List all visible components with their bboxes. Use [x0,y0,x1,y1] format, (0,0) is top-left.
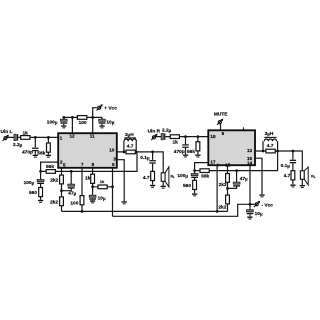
node dots top rail [62,116,65,119]
wire input L [7,136,58,138]
capacitor 100u L [40,171,42,187]
top supply rail wire [64,117,102,133]
resistor 100 L (pin 7) [81,168,83,212]
svg-text:Uin R: Uin R [148,129,161,135]
ground 470p L [33,155,38,158]
junction output L left [123,151,126,154]
svg-text:0.1μ: 0.1μ [281,163,291,169]
capacitor 10u -Vcc [249,204,251,216]
svg-text:8: 8 [92,162,95,167]
pin stub top of U2 [242,127,244,130]
output wire R (pin 13) [255,151,302,171]
+Vcc arrow [93,108,97,118]
resistor 56k R input [197,137,199,155]
capacitor 100u R [194,171,196,181]
junction bus pin 7 net [81,210,84,213]
svg-text:100μ: 100μ [24,180,35,186]
svg-text:560: 560 [183,183,191,189]
svg-text:+ Vcc: + Vcc [104,105,117,111]
wire pin 3 to ground [117,160,124,202]
svg-text:100: 100 [79,120,87,126]
wire input R [156,136,209,138]
svg-text:4.7: 4.7 [143,175,150,181]
resistor 1k L (pin 8) [92,168,94,175]
svg-text:56k: 56k [37,150,45,156]
svg-text:10μ: 10μ [98,195,106,201]
junction output R right [276,150,279,153]
capacitor 0.1u R [292,151,294,171]
svg-text:2k2: 2k2 [218,205,226,211]
lower -Vcc bus [113,204,251,216]
resistor 1k L input [21,136,30,140]
feedback row wire R [195,151,278,171]
ground pin 16 [259,194,264,197]
resistor 4.7 output L [126,150,135,154]
svg-text:2.2μ: 2.2μ [13,142,23,148]
node dot input L / 56k [47,136,50,139]
resistor 4.7 output R [266,149,275,153]
svg-text:5: 5 [63,162,66,167]
speaker L [161,173,165,182]
resistor 4.7 zobel L [151,171,155,180]
svg-text:1k: 1k [85,176,91,182]
inductor 3uH R [263,141,278,151]
capacitor 47u L [70,170,73,173]
svg-text:56k: 56k [187,149,195,155]
capacitor 47u R [235,169,238,172]
svg-text:10μ: 10μ [255,211,263,217]
input arrow Uin L [3,135,9,141]
resistor 1k R input [170,135,179,139]
IC U2 right half [208,130,255,165]
node -Vcc [249,203,252,206]
node dot input R / 470p [184,135,187,138]
svg-text:9: 9 [112,162,115,167]
resistor 1k horizontal L [93,186,113,188]
resistor 560 R [193,180,197,189]
resistor 4.7 zobel R [291,171,295,180]
capacitor 2.2u L [14,134,18,140]
capacitor 10u L [89,195,96,200]
svg-text:470p: 470p [174,149,185,155]
node dot pin8 net [92,183,94,195]
svg-text:4.7: 4.7 [267,143,274,149]
ground 560 L [40,197,42,200]
-Vcc arrow [250,203,255,205]
svg-text:2k2: 2k2 [219,182,227,188]
node dot input L / 470p [34,136,37,139]
capacitor 470p L [34,137,36,154]
ground 10u supply [99,125,104,128]
svg-text:18: 18 [210,134,216,139]
svg-text:4.7: 4.7 [127,144,134,150]
resistor 560 L [39,188,43,197]
capacitor 0.1u L [152,152,154,172]
feedback row wire L [41,152,137,171]
speaker R [300,171,304,180]
svg-text:12: 12 [70,133,76,138]
node dot pin9 line [111,185,114,188]
capacitor 470p R [185,137,187,155]
node dot between 2k2 L [61,184,63,197]
capacitor 100u supply [63,117,65,125]
svg-text:3: 3 [113,156,116,161]
node dot feedback row R [193,169,196,172]
svg-text:7: 7 [81,162,84,167]
mute arrow [217,119,223,125]
ground zobel R [292,180,294,184]
inductor 3uH L [124,141,136,152]
IC U1 left half [58,133,117,168]
resistor 56k L input [47,137,49,154]
wire mute to pin 6 [220,124,222,131]
node dot feedback row left [39,170,42,173]
capacitor 2.2u R [161,133,165,139]
svg-text:6: 6 [222,131,225,136]
wire pin 17 to feedback row R [195,163,209,171]
wire pin 2 to feedback row [41,162,59,171]
svg-text:56k: 56k [201,174,209,180]
ground 56k R [195,155,200,158]
wire pin 4 down to bus [216,165,218,211]
junction pin 12 rail [71,116,74,119]
svg-text:- Vcc: - Vcc [262,202,274,208]
svg-text:100μ: 100μ [47,119,58,125]
junction +Vcc pin 11 [91,116,94,119]
svg-text:56k: 56k [46,164,54,170]
svg-text:3μH: 3μH [125,132,134,138]
node dot zobel R [292,150,295,153]
capacitor 10u supply [101,117,103,125]
wire pin 9 down [112,168,114,217]
input arrow Uin R [151,134,157,140]
ground 100u supply [61,125,66,128]
ground 560 R [194,190,196,194]
wire pin 14 down [249,165,251,204]
svg-text:1k: 1k [23,130,29,136]
svg-text:100: 100 [70,200,78,206]
svg-text:13: 13 [247,148,253,153]
svg-text:1k: 1k [173,140,179,146]
resistor 2k2 lower L [60,197,64,206]
junction bus pin 4 net [216,210,219,213]
svg-text:2k2: 2k2 [50,199,58,205]
resistor 56k feedback R [200,169,209,173]
svg-text:17: 17 [210,159,216,164]
resistor 2k2 lower R [226,195,230,204]
svg-text:47μ: 47μ [68,190,76,196]
svg-text:3μH: 3μH [265,131,274,137]
svg-text:10μ: 10μ [106,120,114,126]
svg-text:10: 10 [109,147,115,152]
svg-text:11: 11 [90,133,95,138]
svg-text:MUTE: MUTE [214,112,228,118]
svg-text:14: 14 [247,161,253,166]
svg-text:Uin L: Uin L [1,129,13,135]
svg-text:560: 560 [29,190,37,196]
node dot zobel L [151,151,154,154]
svg-text:1: 1 [60,136,63,141]
ground zobel L [152,181,154,185]
output wire L (pin 10) [117,152,163,173]
ground 56k L [46,155,51,158]
wire pin 16 to ground [255,158,262,194]
ground 10u L [92,199,94,202]
upper ground bus [62,210,228,212]
ground pin 3 [122,201,127,204]
svg-text:47μ: 47μ [240,176,248,182]
node dot input R / 56k [197,135,200,138]
ground 10u -Vcc [247,217,252,220]
svg-text:470p: 470p [22,149,33,155]
svg-text:1k: 1k [100,179,105,184]
svg-text:2k2: 2k2 [50,178,58,184]
ground 470p R [183,155,188,158]
resistor 2k2 upper R (pin 15) [227,165,229,173]
node dot between 2k2 R [227,182,229,195]
resistor 2k2 upper L (pin 5) [61,168,63,176]
resistor 56k feedback L [46,170,55,174]
svg-text:4.7: 4.7 [284,173,291,179]
junction output L right [135,151,138,154]
junction output R left [262,150,265,153]
svg-text:2.2μ: 2.2μ [162,128,172,134]
resistor 100 supply [77,116,86,120]
svg-text:0.1μ: 0.1μ [140,155,150,161]
svg-text:100μ: 100μ [177,173,188,179]
